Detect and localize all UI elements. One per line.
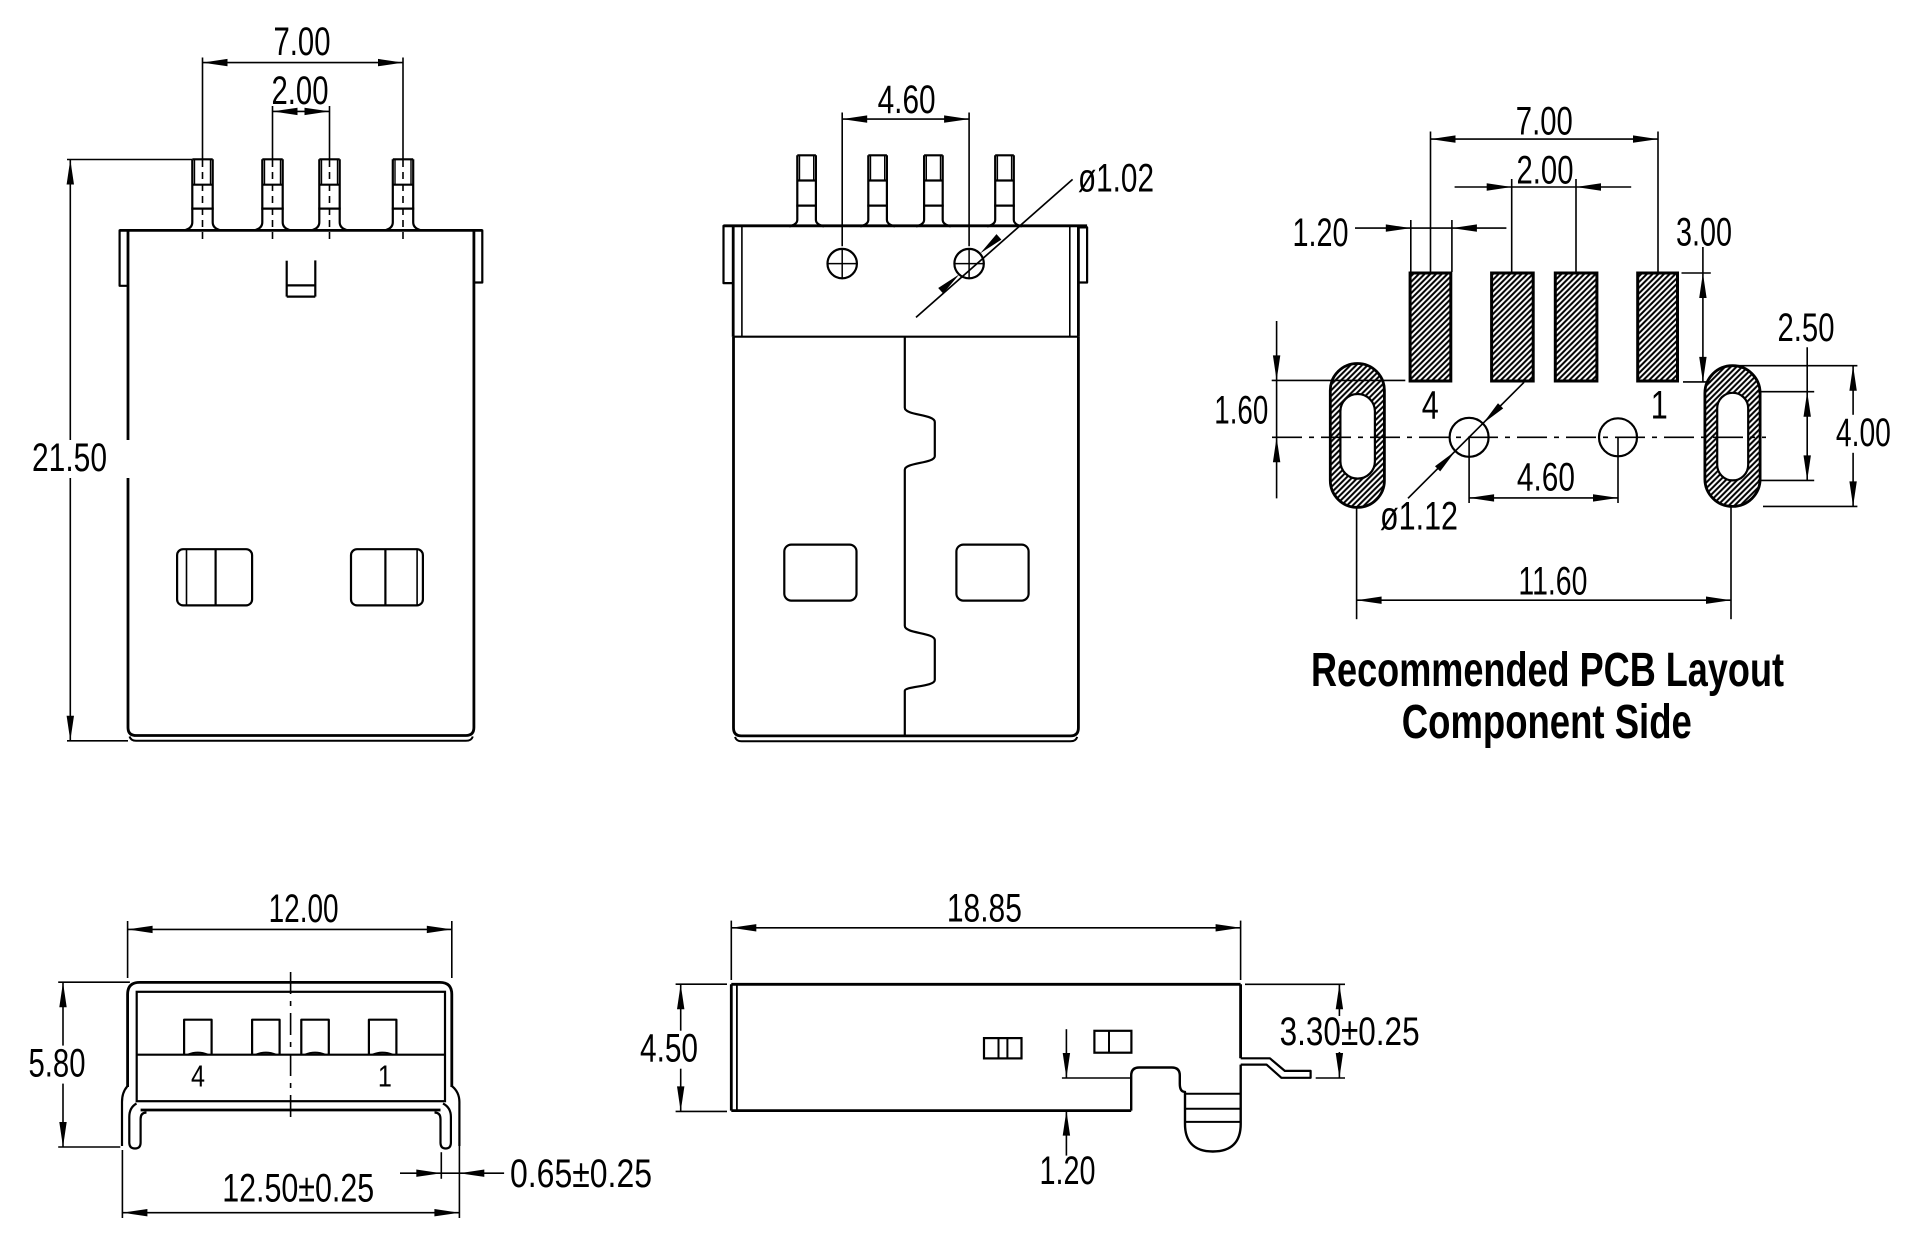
view3 dim 4.60 extension lines <box>1469 437 1618 503</box>
view5 smt lead <box>1241 1058 1311 1078</box>
view5 window A <box>984 1038 1022 1058</box>
svg-text:2.00: 2.00 <box>272 69 329 113</box>
svg-text:18.85: 18.85 <box>947 887 1022 931</box>
view2 right rivet hole <box>954 248 985 279</box>
view1 solder pin 4 <box>184 159 220 230</box>
view3 dim 1.60 <box>1214 321 1280 498</box>
view4 right mounting leg <box>435 1086 460 1149</box>
view1 dim 2.00 extension lines <box>273 106 330 244</box>
view1 solder pin 1 <box>385 159 421 230</box>
view3 drill diameter leader line <box>1408 382 1524 498</box>
view3 pcb pad 3 <box>1492 273 1534 381</box>
view1 dim 21.50 <box>5 160 135 741</box>
view3 dim 1.20 extension lines <box>1411 220 1452 272</box>
view3 dim 4.60 <box>1469 456 1618 502</box>
view1 left latch window <box>177 549 252 605</box>
svg-text:ø1.12: ø1.12 <box>1380 494 1458 538</box>
view5 dim 1.20 <box>1040 1029 1096 1193</box>
view4 dim 12.50 extension lines <box>122 1108 459 1218</box>
view4 contact 4 <box>184 1020 212 1055</box>
view4 contact 2 <box>301 1020 329 1055</box>
svg-text:5.80: 5.80 <box>29 1042 86 1086</box>
view3 right oval mounting slot <box>1705 366 1760 507</box>
svg-text:1: 1 <box>378 1059 392 1094</box>
view2 centre split line with interlock notches <box>905 337 935 736</box>
view2 hole diameter label <box>1078 156 1154 200</box>
svg-text:4: 4 <box>1422 383 1439 427</box>
view3 pcb pad 1 <box>1638 273 1678 381</box>
view4 dim 12.00 extension lines <box>128 921 452 978</box>
view1 dim 7.00 extension lines <box>203 58 404 244</box>
svg-text:Recommended PCB Layout: Recommended PCB Layout <box>1311 644 1784 697</box>
view5 body outline <box>731 984 1240 1110</box>
view5 dim 3.30 <box>1276 984 1424 1078</box>
view3 dim 3.00 extension lines <box>1682 273 1711 382</box>
svg-text:1.60: 1.60 <box>1214 389 1268 433</box>
view3 drill diameter label <box>1380 494 1458 538</box>
view4 dim 0.65 <box>400 1152 652 1196</box>
view5 dim 4.50 extension lines <box>676 984 727 1111</box>
view3 dim 7.00 extension lines <box>1431 132 1659 273</box>
svg-text:11.60: 11.60 <box>1518 560 1587 604</box>
view4 contact label 4 <box>191 1059 205 1094</box>
view4 dim 0.65 extension line <box>440 1152 442 1179</box>
svg-text:Component Side: Component Side <box>1402 696 1692 749</box>
view3 left drill hole <box>1450 418 1489 457</box>
view2 right latch window <box>956 545 1028 601</box>
view5 dim 4.50 <box>619 984 719 1111</box>
view3 horizontal centreline <box>1272 436 1766 438</box>
svg-text:4.60: 4.60 <box>1517 456 1575 500</box>
view3 title line 2 <box>1402 696 1692 749</box>
view2 right ear <box>1078 227 1087 282</box>
svg-text:1.20: 1.20 <box>1293 211 1349 255</box>
view3 left oval mounting slot <box>1330 364 1384 508</box>
svg-text:3.00: 3.00 <box>1676 211 1732 255</box>
view4 contact label 1 <box>378 1059 392 1094</box>
view3 dim 3.00 <box>1676 211 1732 382</box>
view1 right latch window <box>351 549 423 605</box>
view4 contact 1 <box>369 1020 397 1055</box>
view2 solder pin 3 <box>916 155 951 226</box>
view3 right drill hole <box>1599 418 1637 456</box>
view2 hole diameter leader line <box>916 179 1073 317</box>
view1 solder pin 3 <box>254 159 290 230</box>
view5 bottom step and retention hook <box>1131 1065 1241 1152</box>
view1 dim 7.00 <box>203 20 404 66</box>
svg-text:4.50: 4.50 <box>640 1027 698 1071</box>
svg-text:12.00: 12.00 <box>269 887 339 931</box>
svg-text:3.30±0.25: 3.30±0.25 <box>1280 1010 1420 1054</box>
view5 dim 18.85 extension lines <box>731 921 1240 980</box>
view1 centre polarity slot <box>287 260 316 296</box>
view3 dim 4.00 extension lines <box>1738 366 1857 507</box>
view3 dim 2.00 <box>1455 149 1632 193</box>
svg-text:4: 4 <box>191 1059 205 1094</box>
svg-text:1: 1 <box>1651 383 1668 427</box>
view3 pad label 1 <box>1651 383 1668 427</box>
view4 dim 5.80 extension lines <box>58 982 130 1147</box>
svg-text:0.65±0.25: 0.65±0.25 <box>510 1152 652 1196</box>
view5 dim 3.30 extension lines <box>1245 984 1345 1078</box>
view1 right mounting ear <box>474 230 482 282</box>
view5 window B <box>1094 1031 1131 1053</box>
view4 vertical centreline <box>290 972 292 1122</box>
view2 left rivet hole <box>827 248 858 279</box>
view1 left mounting ear <box>120 230 128 285</box>
view5 seating plane line <box>1062 1077 1131 1079</box>
view2 solder pin 4 <box>987 155 1022 226</box>
svg-text:ø1.02: ø1.02 <box>1078 156 1154 200</box>
view1 solder pin 2 <box>311 159 347 230</box>
view4 dim 12.50 <box>122 1166 459 1216</box>
view4 dim 12.00 <box>128 887 452 933</box>
view1 connector body outline <box>120 230 483 740</box>
svg-text:2.50: 2.50 <box>1778 306 1835 350</box>
svg-text:4.00: 4.00 <box>1836 411 1891 455</box>
view3 dim 7.00 <box>1431 100 1659 144</box>
svg-text:21.50: 21.50 <box>32 436 107 480</box>
view3 pad label 4 <box>1422 383 1439 427</box>
view2 solder pin 1 <box>789 155 824 226</box>
view4 shell outer outline <box>128 982 452 1110</box>
view5 dim 18.85 <box>731 887 1240 932</box>
view2 cap block outline <box>724 226 1088 337</box>
svg-text:1.20: 1.20 <box>1040 1149 1096 1193</box>
view2 left latch window <box>784 545 856 601</box>
view4 dim 5.80 <box>7 982 107 1147</box>
view2 body outline <box>734 337 1079 742</box>
view3 dim 1.20 <box>1293 211 1507 255</box>
view3 dim 11.60 <box>1357 560 1731 604</box>
view2 left ear <box>724 226 734 283</box>
view1 dim 2.00 <box>272 69 330 115</box>
view2 dim 4.60 extension lines <box>842 113 969 247</box>
view4 contact shelf line <box>137 1054 445 1056</box>
svg-text:7.00: 7.00 <box>274 20 331 64</box>
svg-text:12.50±0.25: 12.50±0.25 <box>222 1166 374 1210</box>
view3 title line 1 <box>1311 644 1784 697</box>
view4 contact 3 <box>252 1020 280 1055</box>
svg-text:4.60: 4.60 <box>878 78 936 122</box>
svg-text:7.00: 7.00 <box>1516 100 1573 144</box>
view2 dim 4.60 <box>842 78 969 123</box>
view3 dim 11.60 extension lines <box>1357 506 1731 619</box>
view3 dim 2.00 extension lines <box>1512 179 1576 272</box>
view3 dim 2.50 extension lines <box>1757 392 1814 481</box>
view4 left mounting leg <box>122 1086 147 1149</box>
view4 shell inner outline <box>137 992 445 1101</box>
view1 dim 21.50 extension lines <box>67 160 192 741</box>
view3 dim 1.60 extension line <box>1272 379 1406 381</box>
view3 pcb pad 4 <box>1410 273 1451 381</box>
view2 solder pin 2 <box>860 155 895 226</box>
svg-text:2.00: 2.00 <box>1517 149 1574 193</box>
view3 dim 4.00 <box>1828 366 1898 507</box>
view3 dim 2.50 <box>1778 306 1835 481</box>
view3 pcb pad 2 <box>1555 273 1597 381</box>
